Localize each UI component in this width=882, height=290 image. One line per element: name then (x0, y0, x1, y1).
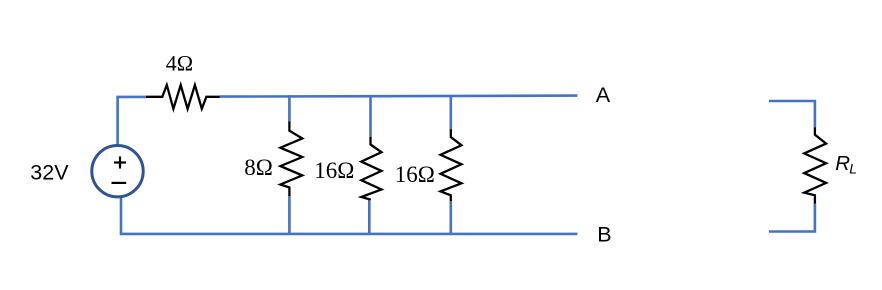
svg-text:16Ω: 16Ω (395, 162, 435, 187)
svg-text:4Ω: 4Ω (166, 50, 193, 75)
svg-text:8Ω: 8Ω (244, 155, 273, 180)
svg-text:RL: RL (835, 152, 857, 177)
svg-text:32V: 32V (30, 161, 69, 185)
svg-text:16Ω: 16Ω (314, 158, 354, 183)
svg-text:B: B (597, 223, 611, 247)
svg-text:A: A (596, 83, 611, 107)
